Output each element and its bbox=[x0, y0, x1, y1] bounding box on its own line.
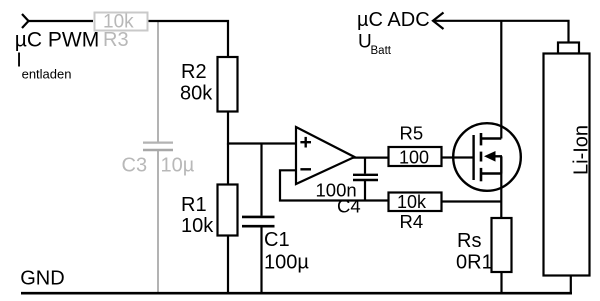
GND bus wire bbox=[21, 292, 572, 295]
capacitor C1 lead bottom bbox=[260, 227, 262, 293]
battery B1 plus tab bbox=[558, 43, 579, 54]
svg-text:0R1: 0R1 bbox=[456, 251, 493, 273]
svg-text:R5: R5 bbox=[400, 123, 424, 144]
wire MOSFET source down to Rs bbox=[500, 174, 502, 219]
svg-text:C1: C1 bbox=[264, 229, 290, 251]
svg-text:C4: C4 bbox=[337, 196, 361, 217]
wire R1 to GND bus bbox=[227, 235, 229, 293]
wire R4 to source node bbox=[442, 200, 501, 202]
MOSFET source stub bbox=[481, 172, 501, 174]
MOSFET channel bar (3 segments) bbox=[480, 133, 483, 145]
resistor R2 bbox=[218, 57, 238, 112]
wire Rs to GND bus bbox=[500, 272, 502, 293]
transistor Q1 (MOSFET) body circle bbox=[453, 123, 521, 191]
wire drain up to top bus bbox=[500, 21, 502, 139]
capacitor C3 (gray) lead bbox=[157, 21, 159, 142]
resistor R5 bbox=[389, 147, 442, 166]
svg-text:Rs: Rs bbox=[457, 230, 481, 252]
capacitor C4 plates bbox=[353, 174, 378, 176]
svg-text:µC PWM: µC PWM bbox=[15, 29, 99, 52]
resistor R4 bbox=[389, 193, 442, 212]
MOSFET drain stub bbox=[481, 137, 501, 139]
wire R3 to corner down to R2 bbox=[149, 21, 229, 57]
op-amp + marking bbox=[300, 141, 311, 143]
wire op-amp inverting feedback bbox=[280, 170, 388, 200]
capacitor C1 lead top bbox=[260, 144, 262, 216]
MOSFET internal source-body link bbox=[500, 156, 502, 173]
resistor R1 bbox=[218, 185, 238, 236]
svg-text:80k: 80k bbox=[180, 83, 213, 105]
input arrow chevron bbox=[22, 14, 29, 28]
resistor Rs bbox=[492, 218, 512, 272]
wire op-amp output to R5 bbox=[352, 157, 389, 159]
op-amp U1 bbox=[296, 127, 355, 184]
svg-text:R4: R4 bbox=[400, 211, 424, 232]
wire R2 to node A bbox=[227, 112, 229, 145]
wire top bus to battery bbox=[433, 21, 569, 43]
svg-text:GND: GND bbox=[20, 268, 64, 290]
wire battery to GND bus bbox=[570, 276, 572, 294]
resistor R3 (gray) bbox=[95, 13, 148, 31]
svg-text:100: 100 bbox=[399, 148, 429, 168]
svg-text:100µ: 100µ bbox=[264, 252, 309, 274]
svg-text:R2: R2 bbox=[181, 61, 207, 83]
svg-text:10µ: 10µ bbox=[161, 155, 195, 177]
svg-text:R3: R3 bbox=[103, 29, 129, 51]
wire node A down to R1 bbox=[227, 144, 229, 186]
wire input to R3 bbox=[27, 20, 93, 22]
wire R5 to MOSFET gate bbox=[442, 156, 474, 158]
svg-text:10k: 10k bbox=[397, 192, 427, 212]
svg-text:10k: 10k bbox=[181, 215, 214, 237]
capacitor C3 plates bbox=[143, 142, 173, 144]
MOSFET body arrow bbox=[484, 151, 496, 162]
op-amp − marking bbox=[300, 168, 311, 170]
svg-text:C3: C3 bbox=[122, 155, 148, 177]
µC ADC arrow chevron bbox=[433, 13, 444, 30]
svg-text:entladen: entladen bbox=[22, 67, 72, 82]
wire node A to op-amp + input bbox=[227, 142, 296, 144]
MOSFET gate bar bbox=[472, 135, 474, 180]
capacitor C4 lead bottom bbox=[364, 181, 366, 201]
svg-text:Li-Ion: Li-Ion bbox=[571, 125, 593, 175]
capacitor C1 plates bbox=[242, 216, 275, 219]
svg-text:µC ADC: µC ADC bbox=[357, 9, 430, 31]
svg-text:Batt: Batt bbox=[371, 45, 392, 57]
capacitor C4 lead top bbox=[364, 158, 366, 174]
svg-text:R1: R1 bbox=[181, 194, 207, 216]
battery B1 body bbox=[544, 54, 590, 276]
